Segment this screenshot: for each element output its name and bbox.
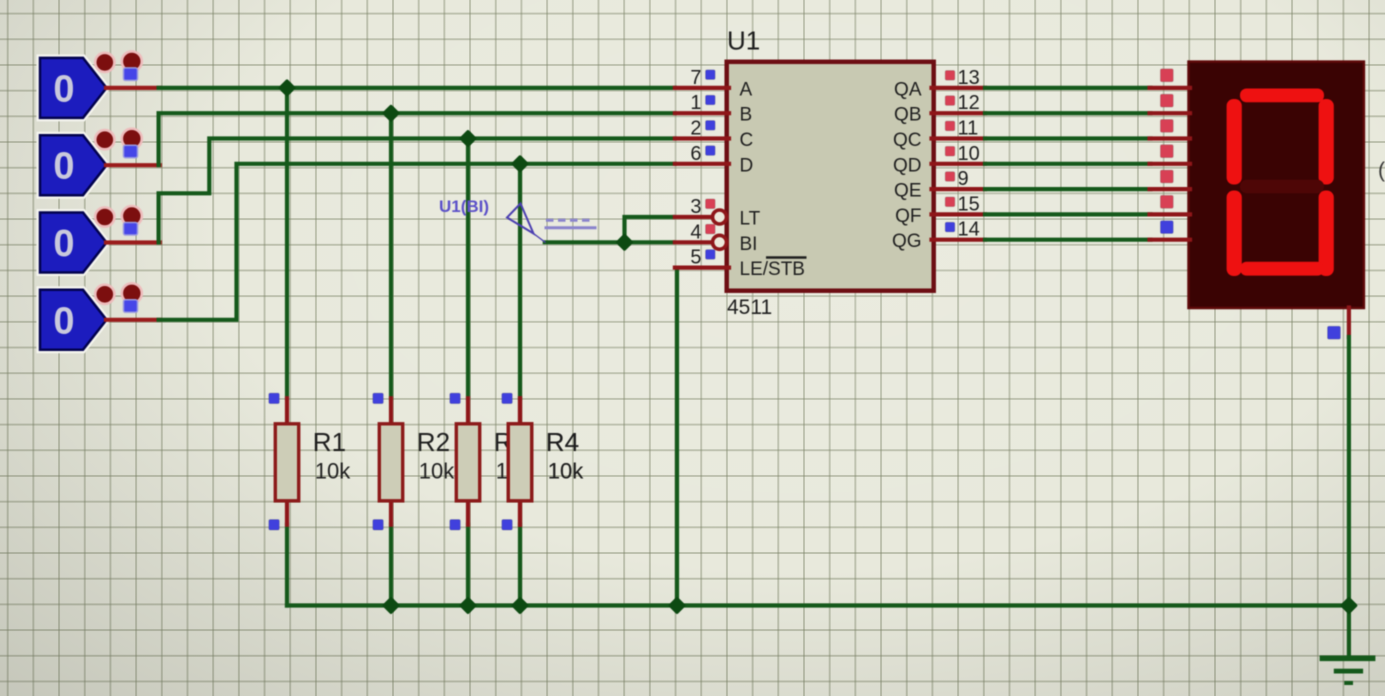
wire: ground rail (bottom horizontal) — [287, 603, 1349, 607]
segment a (on) — [1240, 89, 1324, 103]
resistor R4 10k — [508, 398, 531, 524]
display pin stub row 15 — [1150, 195, 1191, 214]
pin 4 (BI) left side — [675, 221, 758, 255]
junction: LT/BI branch — [618, 236, 631, 249]
svg-text:0: 0 — [53, 223, 74, 265]
selection markers R2 — [373, 393, 384, 530]
label 4511 — [727, 296, 772, 319]
svg-text:B: B — [740, 105, 753, 126]
logic input 1 (LOGICSTATE, value 0) — [40, 51, 142, 118]
selection markers R3 — [450, 393, 461, 530]
label 10k of R1 — [315, 458, 351, 483]
svg-text:10k: 10k — [548, 458, 584, 483]
pin 10 (QD) right side — [893, 143, 985, 177]
display pin stub row 9 — [1150, 170, 1191, 189]
svg-text:QE: QE — [894, 181, 921, 202]
junction: net A / R1 top — [280, 81, 293, 94]
display pin stub row 11 — [1150, 120, 1191, 139]
label 10k of R4 — [548, 458, 584, 483]
svg-text:U1(BI): U1(BI) — [439, 197, 489, 216]
svg-text:QB: QB — [894, 105, 921, 126]
wire net B (vertical from input2 + row to pin B) — [159, 113, 675, 165]
svg-text:10: 10 — [958, 143, 980, 165]
wire: pin LE/STB down to ground rail — [675, 268, 679, 606]
wire: net B down to R2 — [389, 113, 393, 398]
svg-text:4511: 4511 — [727, 296, 772, 319]
junction: net B / R2 top — [384, 107, 397, 120]
svg-text:0: 0 — [53, 68, 74, 110]
label 10k of R3 — [496, 458, 532, 483]
wire: QD to display — [985, 162, 1151, 166]
pin 12 (QB) right side — [894, 92, 985, 126]
wire: net C down to R3 — [466, 139, 470, 399]
junction: net C / R3 top — [461, 132, 474, 145]
wire: red pin stub of logic input 4 — [106, 318, 160, 322]
logic input 2 (LOGICSTATE, value 0) — [40, 129, 142, 196]
IC U1 body (4511) — [727, 62, 934, 291]
logic input 4 (LOGICSTATE, value 0) — [40, 283, 142, 350]
logic input 3 (LOGICSTATE, value 0) — [40, 206, 142, 273]
svg-text:C: C — [740, 130, 754, 151]
svg-text:4: 4 — [690, 221, 701, 243]
label 10k of R4 — [548, 458, 584, 483]
label R3 — [494, 427, 527, 457]
label U1(BI) wire tag with pointer triangle — [439, 197, 595, 243]
svg-text:13: 13 — [958, 67, 980, 89]
pin 9 (QE) right side — [894, 168, 985, 202]
resistor R4 body overlapping R3 label — [508, 398, 531, 524]
wire net C (staircase from input3 to pin C) — [159, 139, 675, 243]
wire: R2 bottom to ground rail — [389, 525, 393, 606]
wire: net U1(BI) to pin BI — [545, 240, 673, 244]
wire: net D down to R4 — [518, 164, 522, 398]
wire: red pin stub of logic input 1 — [106, 86, 160, 90]
junction: R4 at ground rail — [513, 599, 526, 612]
svg-text:14: 14 — [958, 219, 980, 241]
pin 13 (QA) right side — [894, 67, 985, 101]
display pin stub row 14 — [1150, 221, 1191, 240]
wire: red pin stub of logic input 2 — [106, 163, 160, 167]
svg-text:12: 12 — [958, 92, 980, 114]
svg-text:5: 5 — [690, 247, 701, 269]
wire: QF to display — [985, 212, 1151, 216]
display pin stub row 13 — [1150, 69, 1191, 88]
svg-text:QC: QC — [893, 130, 922, 151]
label R1 — [313, 427, 346, 457]
resistor R2 10k — [379, 398, 402, 524]
segment g (off) — [1240, 180, 1324, 193]
svg-text:10k: 10k — [419, 458, 455, 483]
pin 7 (A) left side — [675, 67, 753, 101]
wire: display common to ground — [1347, 337, 1351, 656]
pin 11 (QC) right side — [893, 118, 985, 152]
svg-text:11: 11 — [958, 118, 979, 140]
display pin stub row 10 — [1150, 145, 1191, 164]
junction: R2 at ground rail — [384, 599, 397, 612]
wire: QG to display — [985, 238, 1151, 242]
wire: QC to display — [985, 136, 1151, 140]
pin 6 (D) left side — [675, 143, 753, 177]
label R4 — [546, 427, 579, 457]
svg-text:1: 1 — [690, 92, 701, 114]
wire: QA to display — [985, 86, 1151, 90]
svg-text:R2: R2 — [417, 427, 450, 457]
svg-text:QD: QD — [893, 155, 922, 176]
svg-text:6: 6 — [690, 143, 701, 165]
label 10k of R2 — [419, 458, 455, 483]
svg-text:D: D — [740, 155, 754, 176]
svg-text:QF: QF — [895, 206, 921, 227]
wire: QB to display — [985, 111, 1151, 115]
resistor R1 10k — [275, 398, 298, 524]
junction: net D / R4 top — [513, 157, 526, 170]
pin 1 (B) left side — [675, 92, 752, 126]
selection markers R1 — [269, 393, 280, 530]
svg-text:U1: U1 — [727, 26, 760, 56]
junction: ground rail / display common — [1342, 599, 1355, 612]
wire: branch up to pin LT — [625, 217, 674, 242]
wire: net A down to R1 — [285, 88, 289, 398]
7-segment display body — [1189, 62, 1364, 308]
svg-text:LT: LT — [740, 209, 761, 230]
wire: R3 bottom to ground rail — [466, 525, 470, 606]
svg-text:7: 7 — [690, 67, 701, 89]
pin 3 (LT) left side — [675, 196, 761, 230]
partial label at right edge — [1378, 159, 1385, 182]
display pin stub row 12 — [1150, 94, 1191, 113]
segment b (on) — [1319, 99, 1334, 185]
wire: R1 bottom to ground rail — [285, 525, 289, 606]
label R2 — [417, 427, 450, 457]
segment f (on) — [1227, 99, 1242, 185]
segment d (on) — [1240, 262, 1324, 276]
wire: R4 bottom to ground rail — [518, 525, 522, 606]
svg-text:10k: 10k — [315, 458, 351, 483]
pin 15 (QF) right side — [895, 193, 985, 227]
svg-text:0: 0 — [53, 300, 74, 342]
svg-text:2: 2 — [690, 118, 701, 140]
svg-text:R1: R1 — [313, 427, 346, 457]
label U1 — [727, 26, 760, 56]
svg-text:R4: R4 — [546, 427, 579, 457]
ground symbol — [1320, 656, 1376, 686]
pin 5 (LE/STB) left side — [675, 247, 807, 281]
svg-text:QG: QG — [892, 231, 922, 252]
svg-text:9: 9 — [958, 168, 969, 190]
pin 2 (C) left side — [675, 118, 753, 152]
pin 14 (QG) right side — [892, 219, 985, 253]
svg-text:A: A — [740, 79, 753, 100]
junction: R3 at ground rail — [461, 599, 474, 612]
resistor R3 10k — [456, 398, 479, 524]
label R4 — [546, 427, 579, 457]
svg-text:BI: BI — [740, 234, 758, 255]
wire: red pin stub of logic input 3 — [106, 240, 160, 244]
selection markers R4 — [502, 393, 513, 530]
segment e (on) — [1227, 191, 1242, 277]
segment c (on) — [1319, 191, 1334, 277]
svg-text:3: 3 — [690, 196, 701, 218]
svg-text:15: 15 — [958, 193, 980, 215]
svg-text:QA: QA — [894, 79, 922, 100]
display common pin (bottom) — [1328, 308, 1349, 340]
svg-text:(: ( — [1378, 159, 1385, 182]
wire: QE to display — [985, 187, 1151, 191]
junction: LE/STB wire at ground rail — [670, 599, 683, 612]
svg-text:0: 0 — [53, 146, 74, 188]
wire net D (from input4 to pin D) — [159, 164, 675, 320]
svg-text:LE/STB: LE/STB — [740, 259, 805, 280]
wire net A (input1 to pin A, row y=88) — [159, 86, 675, 90]
